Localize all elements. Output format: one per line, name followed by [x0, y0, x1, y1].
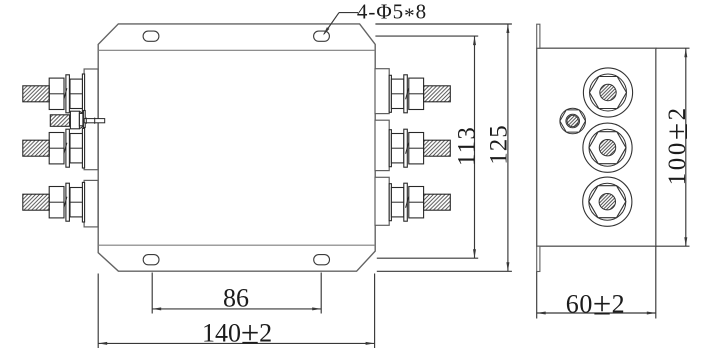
svg-text:140±2: 140±2 — [202, 316, 272, 352]
svg-text:100±2: 100±2 — [659, 105, 694, 185]
svg-text:113: 113 — [454, 126, 481, 166]
svg-text:86: 86 — [223, 284, 249, 313]
svg-text:125: 125 — [486, 124, 513, 165]
svg-text:60±2: 60±2 — [566, 287, 626, 323]
